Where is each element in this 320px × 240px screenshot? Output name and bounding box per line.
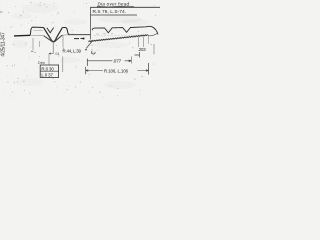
scan mottling blotches — [12, 3, 149, 89]
outer V groove upper flanks — [44, 28, 63, 39]
dim .077 line left — [87, 60, 112, 62]
extension tick below left profile — [39, 41, 41, 47]
dim R.106 L.106 right tick — [148, 63, 150, 75]
left figure baseline right segment — [68, 34, 90, 36]
doubled top edge line — [34, 30, 44, 32]
right figure top profile with two notches — [92, 26, 158, 34]
dim R.106 L.106 line left — [86, 70, 103, 72]
extension line right of box — [62, 57, 64, 73]
header rule bottom — [91, 14, 137, 16]
left figure baseline left segment — [14, 34, 30, 37]
dim R.106 L.106 line right — [138, 70, 149, 72]
table vertical border — [89, 7, 91, 39]
base V notch right wall — [54, 35, 62, 42]
tiny marks above mid line — [96, 33, 113, 35]
base V notch left wall — [44, 36, 53, 42]
dim .077 end tick — [130, 57, 132, 64]
extension line below serration b — [143, 37, 145, 47]
extension line below serration c — [148, 36, 150, 44]
smudge after L.39 — [85, 49, 87, 51]
serrated cutting edge — [89, 35, 149, 42]
underline of Dia over head — [97, 5, 134, 8]
header rule top — [91, 6, 161, 8]
svg-text:Dia over head: Dia over head — [98, 2, 130, 7]
small dot under baseline — [83, 37, 85, 39]
extension line below left shoulder — [32, 38, 34, 50]
faint mid dashed line — [94, 34, 149, 36]
extension line below serration a — [137, 37, 139, 47]
outer V groove lower tip — [50, 38, 57, 42]
svg-text:L 0 37: L 0 37 — [41, 72, 53, 77]
diagonal break line between figures — [86, 41, 92, 49]
squiggle specks — [92, 50, 93, 51]
extension into box — [48, 54, 50, 66]
left figure step and flange top — [30, 27, 44, 35]
extension line below V tip — [49, 43, 53, 55]
paper background — [0, 0, 160, 100]
inner small v — [47, 28, 54, 33]
bracket under .203 — [135, 52, 140, 58]
dim R.106 L.106 left tick — [85, 67, 87, 74]
dim .077 line right with arrow — [125, 60, 132, 62]
svg-text:Dim: Dim — [38, 61, 45, 65]
value box outline — [40, 65, 58, 78]
scan noise speckles — [1, 2, 156, 98]
right flange top and shoulder — [62, 28, 69, 35]
hidden surface line right side — [62, 34, 68, 36]
svg-text:4/25/11-347: 4/25/11-347 — [1, 32, 7, 57]
serration right end closure — [148, 33, 157, 36]
hidden surface line under insert — [31, 34, 44, 36]
svg-text:.077: .077 — [113, 58, 122, 63]
dim .077 bracket vertical — [86, 59, 88, 66]
svg-text:.203: .203 — [138, 47, 147, 52]
targeted specks — [0, 2, 140, 96]
specks near box top left — [31, 51, 36, 52]
svg-text:R.S 76, L.S-74.: R.S 76, L.S-74. — [93, 9, 127, 15]
squiggle note .099 — [91, 51, 95, 54]
svg-text:R.0 30: R.0 30 — [41, 66, 54, 71]
value box divider — [40, 70, 58, 72]
small arrow marks under baseline — [74, 37, 84, 39]
leader line under right baseline — [62, 35, 64, 48]
svg-text:R.106, L.106: R.106, L.106 — [104, 69, 129, 74]
right short vertical near .203 — [153, 44, 155, 54]
